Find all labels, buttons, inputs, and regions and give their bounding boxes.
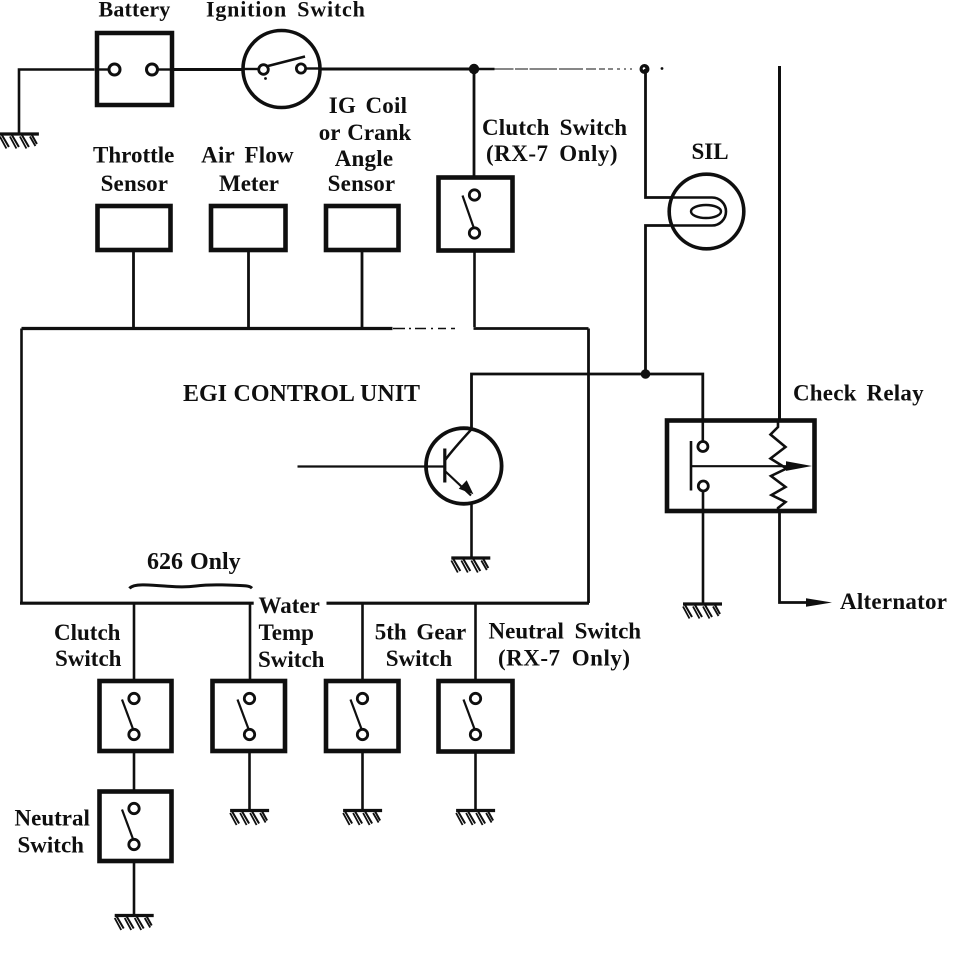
node J1 (469, 64, 479, 74)
ignition switch S1 (243, 31, 320, 108)
svg-text:(RX-7 Only): (RX-7 Only) (486, 141, 618, 166)
svg-text:Sensor: Sensor (101, 171, 169, 196)
label Clutch Switch (RX-7 Only) (482, 115, 627, 166)
svg-text:Clutch: Clutch (54, 620, 121, 645)
svg-text:Alternator: Alternator (840, 589, 947, 614)
svg-text:Temp: Temp (259, 620, 314, 645)
5th gear switch S6 (326, 681, 399, 751)
clutch switch S2 (RX-7 only) (439, 178, 513, 251)
transistor Q1 (426, 428, 502, 504)
wire J2 down and into SIL (646, 69, 672, 198)
wire emitter of Q1 to ground (470, 503, 473, 557)
ground G6 below neutral switch (115, 916, 154, 931)
wire EGI to clutch switch (133, 603, 136, 679)
wire EGI to 5th gear switch (361, 603, 364, 679)
wire neutral switch (RX-7) to ground (474, 752, 477, 811)
wire J1 down to clutch switch (RX-7) (473, 69, 476, 176)
svg-text:Air Flow: Air Flow (201, 143, 294, 168)
battery B1 (96, 33, 173, 105)
check relay K1 (667, 420, 815, 511)
wire ig coil to EGI (361, 250, 364, 327)
air flow meter box (211, 206, 286, 250)
ground G8 below 5th gear switch (343, 811, 382, 826)
wire clutch switch to neutral switch (133, 751, 136, 790)
neutral switch S4 (100, 792, 172, 862)
ground G2 below transistor (451, 558, 490, 573)
label Neutral Switch (RX-7 Only) (489, 619, 642, 671)
arrow to alternator (806, 598, 832, 606)
svg-text:5th Gear: 5th Gear (375, 620, 467, 645)
wire water temp switch to ground (248, 751, 251, 810)
svg-text:Switch: Switch (18, 833, 85, 858)
svg-text:Sensor: Sensor (328, 171, 396, 196)
svg-text:(RX-7 Only): (RX-7 Only) (498, 646, 631, 671)
svg-text:Neutral Switch: Neutral Switch (489, 619, 642, 644)
brace under 626 Only (129, 585, 252, 589)
svg-text:Meter: Meter (219, 171, 279, 196)
throttle sensor box (98, 206, 171, 250)
label Air Flow Meter (201, 143, 294, 196)
svg-text:EGI CONTROL UNIT: EGI CONTROL UNIT (183, 381, 420, 407)
wire battery to ignition switch (174, 68, 244, 71)
svg-text:Switch: Switch (386, 646, 453, 671)
ig coil / crank angle sensor box (326, 206, 399, 250)
wire battery to left ground (19, 70, 95, 135)
svg-text:626 Only: 626 Only (147, 549, 241, 575)
svg-text:Switch: Switch (55, 646, 122, 671)
svg-text:or Crank: or Crank (319, 120, 412, 145)
svg-text:Ignition Switch: Ignition Switch (206, 0, 366, 21)
label Throttle Sensor (93, 143, 174, 196)
ground G1 (0, 134, 39, 149)
node J3 (641, 369, 651, 379)
lamp SIL (669, 174, 744, 249)
water temp switch S5 (213, 681, 286, 751)
svg-text:Angle: Angle (335, 146, 394, 171)
wire ignition switch to node J1 (320, 68, 474, 71)
wire stub right of J2 (661, 67, 664, 70)
wire EGI to neutral switch (RX-7) (474, 603, 477, 679)
wire check relay to alternator (780, 511, 807, 603)
svg-text:SIL: SIL (692, 139, 729, 164)
svg-text:Neutral: Neutral (15, 806, 90, 831)
svg-text:IG Coil: IG Coil (329, 93, 407, 118)
svg-text:Check Relay: Check Relay (793, 381, 924, 406)
wire EGI to water temp switch (249, 603, 252, 679)
ground G9 below neutral switch (RX-7) (456, 811, 495, 826)
label IG Coil or Crank Angle Sensor (319, 93, 412, 196)
wire J1 to J2 (faint scanned) (474, 68, 495, 71)
svg-text:Battery: Battery (99, 0, 171, 21)
wire 5th gear switch to ground (361, 751, 364, 810)
svg-text:Switch: Switch (258, 647, 325, 672)
wire throttle sensor to EGI (132, 250, 135, 327)
ground G5 below check relay (683, 604, 722, 619)
svg-text:Water: Water (259, 593, 320, 618)
wire neutral switch to ground (133, 861, 136, 915)
wire SIL down to node J3 (646, 226, 671, 375)
EGI control unit box U1 (20, 329, 589, 604)
wire clutch switch (RX-7) to EGI box (473, 251, 476, 327)
ground G7 below water temp switch (230, 811, 269, 826)
wire collector of Q1 to check relay (472, 374, 703, 431)
svg-text:Clutch Switch: Clutch Switch (482, 115, 627, 140)
wire base of Q1 (298, 465, 446, 467)
wire top feed to check relay resistor (778, 66, 781, 419)
neutral switch S7 (RX-7 only) (439, 681, 513, 752)
label Water Temp Switch (258, 593, 325, 672)
node J2 (640, 64, 650, 74)
wire check relay to ground (702, 492, 705, 605)
wire air flow meter to EGI (247, 250, 250, 327)
label 5th Gear Switch (375, 620, 467, 672)
svg-text:Throttle: Throttle (93, 143, 174, 168)
label Clutch Switch (bottom left) (54, 620, 122, 671)
label Neutral Switch (bottom left) (15, 806, 90, 858)
clutch switch S3 (100, 681, 172, 751)
